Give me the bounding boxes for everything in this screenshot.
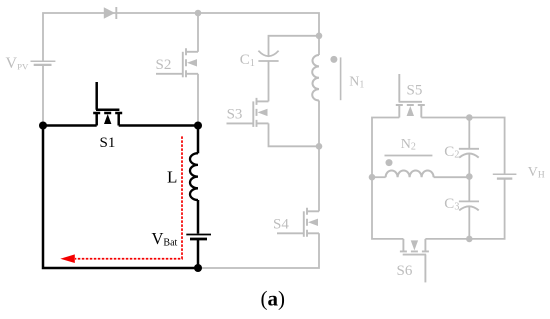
wire C3 bottom terminal [468, 206, 470, 239]
svg-text:S4: S4 [273, 217, 289, 233]
N1 core bar [340, 57, 342, 100]
wire S4 source down and bottom gray rail [198, 233, 319, 268]
transistor S1 [93, 82, 122, 126]
svg-text:(a): (a) [260, 286, 285, 310]
junction dot C3 bottom [466, 236, 473, 243]
junction dot top rail / S2 [195, 10, 202, 17]
battery V_H [493, 174, 517, 178]
capacitor C1 [258, 51, 278, 61]
transistor S2 [156, 48, 198, 77]
svg-text:N1: N1 [349, 75, 364, 91]
wire black left side and bottom rail [43, 126, 198, 269]
svg-text:S3: S3 [227, 106, 243, 122]
battery V_PV [31, 61, 56, 65]
transistor S3 [227, 98, 269, 127]
junction dot S3 / N1 / S4 [316, 143, 323, 150]
wire N2 right lead [434, 176, 470, 178]
wire right box top left and left side and bottom left [372, 118, 403, 239]
battery V_Bat [186, 235, 211, 240]
junction node S1 drain [194, 122, 202, 130]
transistor S4 [277, 208, 319, 237]
svg-text:S5: S5 [407, 83, 423, 99]
svg-text:VBat: VBat [152, 229, 178, 249]
wire N2 left lead [372, 176, 386, 178]
N2 core bar [385, 155, 433, 157]
wire L to battery [197, 200, 200, 234]
wire N1 junction to S4 drain [318, 146, 320, 211]
wire right box right lower and bottom right [425, 179, 504, 239]
transistor S6 [400, 239, 429, 283]
junction dot C2/C3 middle [466, 173, 473, 180]
wire C1 top terminal and top rail [269, 36, 320, 56]
wire black top rail right [119, 124, 198, 127]
diode D1 [104, 7, 117, 19]
junction node bottom [194, 264, 202, 272]
wire N1 rail lower [318, 101, 320, 147]
wire C3 top terminal [468, 177, 470, 201]
svg-text:VPV: VPV [6, 55, 29, 72]
wire S2 source rail [197, 74, 199, 126]
winding N2 [386, 171, 434, 178]
svg-text:C2: C2 [444, 144, 459, 161]
svg-text:C3: C3 [444, 196, 459, 213]
wire C1 to S3 [268, 61, 270, 101]
junction dot C2 top [466, 114, 473, 121]
svg-text:L: L [167, 167, 177, 186]
junction dot C1 rail / N1 [316, 33, 323, 40]
svg-text:S2: S2 [156, 57, 172, 73]
wire S3 source down to N1 bottom junction [269, 123, 320, 146]
inductor L [190, 153, 198, 200]
svg-text:S1: S1 [100, 135, 116, 151]
wire V_PV branch upper, top rail, N1 rail upper [43, 13, 319, 61]
wire C2 top terminal [468, 118, 470, 149]
current path red dashed arrow [75, 136, 182, 258]
wire black top rail left [43, 124, 97, 127]
red arrowhead [60, 254, 75, 263]
junction dot N2 left [369, 174, 376, 181]
N1 phase dot [330, 56, 337, 63]
wire battery to bottom [197, 240, 200, 268]
wire V_PV branch lower [42, 65, 44, 126]
N2 phase dot [386, 159, 393, 166]
svg-text:VH: VH [528, 165, 545, 181]
transistor S5 [396, 74, 425, 118]
winding N1 [312, 55, 319, 101]
wire S2 drain rail [197, 13, 199, 52]
capacitor C2 [459, 149, 479, 158]
wire C2 bottom terminal [468, 154, 470, 177]
svg-text:N2: N2 [401, 137, 416, 153]
wire right box top right and right upper [421, 118, 504, 174]
junction node left top [39, 122, 47, 130]
wire L to junction [197, 126, 200, 154]
capacitor C3 [459, 201, 479, 210]
svg-text:S6: S6 [397, 263, 413, 279]
svg-text:C1: C1 [240, 52, 255, 69]
